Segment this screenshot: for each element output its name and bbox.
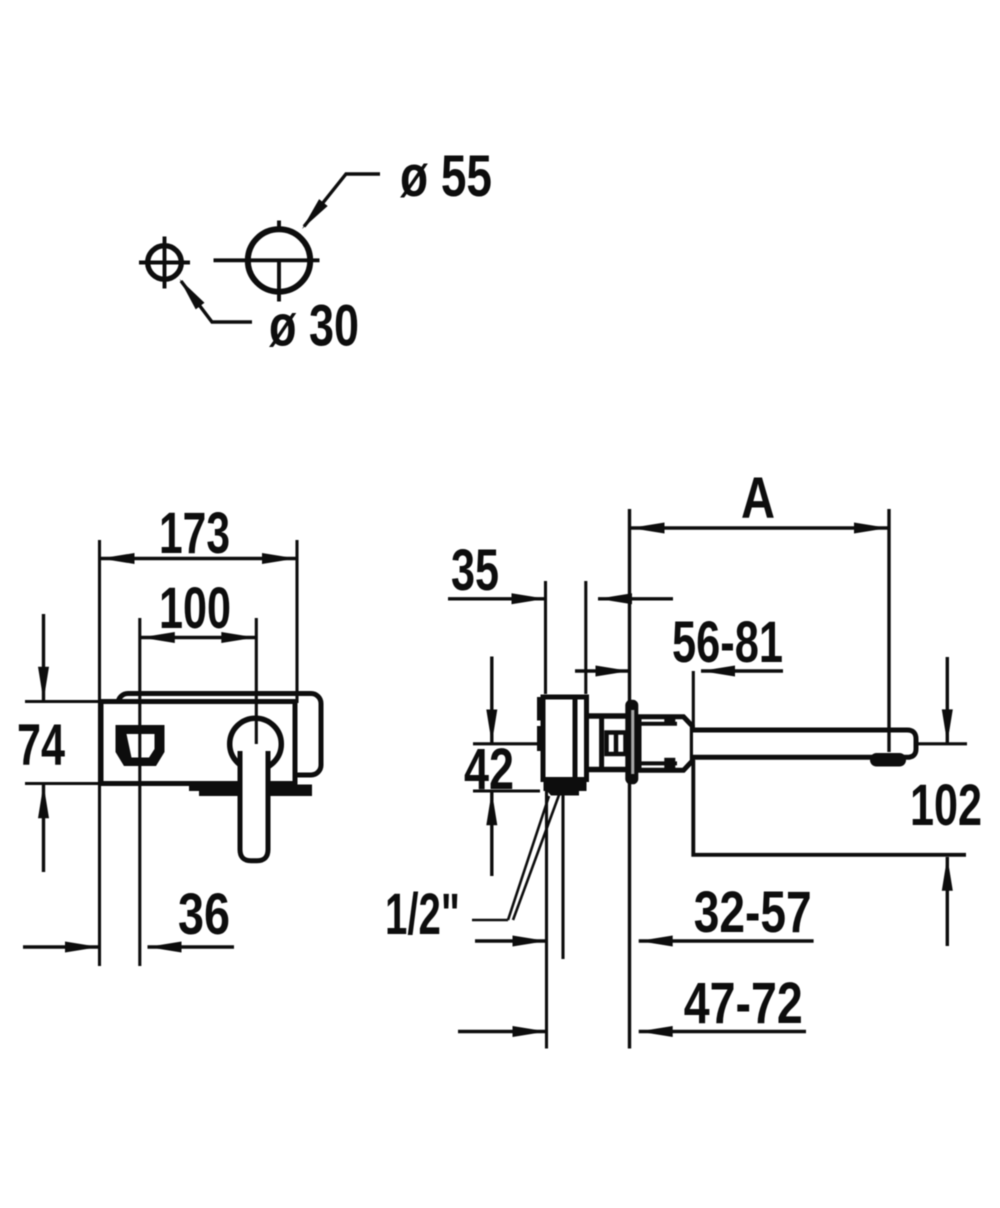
svg-text:173: 173 — [159, 501, 230, 566]
dimension 56-81 — [575, 666, 783, 677]
svg-text:32-57: 32-57 — [694, 880, 812, 945]
svg-text:35: 35 — [451, 538, 499, 603]
dimension 47-72 — [458, 1026, 806, 1037]
wall plane line — [628, 509, 631, 1049]
svg-text:56-81: 56-81 — [672, 610, 783, 675]
dimension 74 — [38, 614, 49, 872]
dimension 32-57 extension lines — [547, 783, 564, 1049]
dimension 35 — [448, 593, 673, 604]
dimension 74 extension lines — [25, 702, 99, 784]
dimension 42 — [486, 657, 497, 877]
leader arrow to ø30 — [175, 276, 252, 322]
faucet body front — [101, 702, 295, 784]
handle knob circle — [230, 718, 282, 770]
bottom foot bar — [189, 785, 312, 797]
spout tube — [693, 730, 916, 757]
back plate — [118, 694, 321, 776]
spout base — [639, 715, 692, 771]
centerline vertical of ø30 — [163, 237, 167, 289]
centerline vertical of ø55 — [277, 221, 281, 302]
svg-text:A: A — [741, 466, 775, 531]
dimension 102 extension line — [916, 742, 967, 745]
handle lever stem — [240, 751, 268, 861]
dimension 173 extension lines — [100, 540, 298, 966]
svg-text:ø 55: ø 55 — [400, 144, 492, 209]
connector tubes to wall — [589, 716, 626, 770]
dimension 173 — [100, 553, 298, 564]
dimension 100 extension lines — [140, 618, 256, 966]
dimension 42 extension lines — [473, 744, 542, 791]
svg-text:47-72: 47-72 — [684, 971, 803, 1036]
dimension 35 extension lines — [546, 581, 586, 694]
svg-text:42: 42 — [464, 737, 514, 802]
spout window (cup) — [116, 725, 165, 766]
supply connection block — [544, 781, 587, 796]
svg-text:36: 36 — [178, 882, 230, 947]
body front tabs — [537, 697, 543, 751]
centerline horizontal of ø30 — [139, 261, 190, 265]
hole circle ø55 — [248, 229, 310, 291]
svg-text:102: 102 — [910, 773, 982, 838]
hole circle ø30 — [148, 246, 182, 280]
wall flange escutcheon — [625, 700, 638, 785]
valve body side — [543, 697, 587, 780]
dimension 56-81 extension line — [692, 671, 695, 729]
dimension 32-57 — [475, 936, 814, 947]
svg-text:1/2": 1/2" — [385, 882, 460, 947]
svg-text:100: 100 — [159, 576, 231, 641]
leader arrow to ø55 — [298, 174, 380, 232]
centerline horizontal of ø55 — [214, 258, 320, 262]
aerator outlet — [870, 753, 906, 767]
dimension 36 — [23, 942, 234, 953]
svg-text:74: 74 — [17, 713, 65, 778]
leader 1/2 inch — [472, 795, 559, 920]
dimension 100 — [140, 632, 256, 643]
basin reference L line — [693, 760, 966, 855]
svg-text:ø 30: ø 30 — [269, 294, 359, 359]
dimension A extension right — [887, 509, 890, 752]
dimension 102 — [942, 657, 953, 946]
dimension A — [630, 523, 890, 534]
